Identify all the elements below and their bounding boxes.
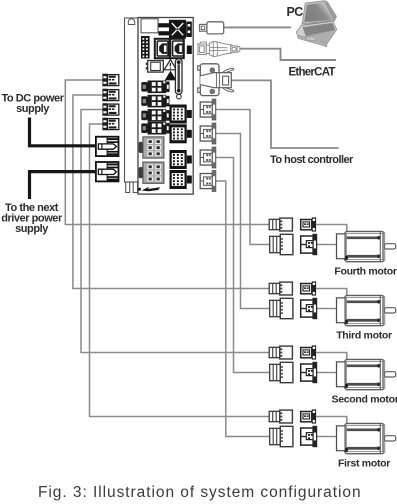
encoder port 1 bbox=[200, 99, 216, 120]
wire: first motor power lead bbox=[316, 417, 347, 424]
driver card-edge slot bbox=[175, 59, 182, 99]
svg-text:Fig. 3: Illustration of system: Fig. 3: Illustration of system configura… bbox=[38, 484, 362, 501]
wire: driver I/O 4 to first motor power plug bbox=[90, 124, 270, 417]
driver motor connector 2 bbox=[170, 124, 187, 143]
first motor encoder lead plug bbox=[301, 426, 317, 446]
next-driver power connector bbox=[96, 162, 119, 181]
encoder port 4 bbox=[200, 171, 216, 192]
warning triangle solid bbox=[165, 71, 177, 81]
wire: encoder port 1 to fourth motor encoder plug bbox=[216, 110, 270, 245]
first motor power cable plug bbox=[269, 410, 292, 423]
third motor encoder cable plug bbox=[270, 298, 293, 318]
driver brake connector 2 bbox=[139, 162, 164, 183]
driver dual RJ45 EtherCAT ports bbox=[155, 39, 184, 59]
driver I/O connector row (hash connectors) bbox=[141, 81, 169, 135]
driver motor connector 4 bbox=[170, 170, 187, 189]
driver bottom brand arrow bbox=[138, 187, 160, 192]
encoder port 2 bbox=[200, 123, 216, 144]
svg-text:First motor: First motor bbox=[338, 458, 390, 470]
host controller plug bbox=[198, 64, 234, 96]
driver right edge tabs bbox=[187, 46, 192, 184]
driver status display bbox=[146, 61, 164, 73]
DC power connector bbox=[96, 137, 119, 156]
svg-text:To host controller: To host controller bbox=[270, 154, 354, 166]
second motor encoder cable plug bbox=[270, 362, 293, 382]
svg-text:PC: PC bbox=[287, 5, 304, 19]
svg-text:supply: supply bbox=[16, 103, 50, 115]
driver motor connector 1 bbox=[170, 105, 187, 124]
warning triangle outline bbox=[164, 60, 176, 70]
EtherCAT cable plug bbox=[198, 42, 240, 57]
second motor bbox=[337, 359, 396, 389]
fourth motor bbox=[337, 231, 396, 261]
svg-text:Third motor: Third motor bbox=[336, 330, 392, 342]
third motor power cable plug bbox=[269, 282, 292, 295]
wire: third motor power lead bbox=[316, 289, 347, 296]
driver pin header bbox=[141, 36, 150, 59]
first motor bbox=[337, 423, 396, 453]
fourth motor power lead plug bbox=[301, 217, 316, 231]
wire: second motor power lead bbox=[316, 353, 347, 360]
svg-text:EtherCAT: EtherCAT bbox=[289, 67, 336, 79]
svg-text:Fourth motor: Fourth motor bbox=[334, 266, 397, 278]
wire: driver I/O 2 to third motor power plug bbox=[73, 95, 269, 289]
second motor encoder lead plug bbox=[301, 362, 317, 382]
wire: third motor encoder lead bbox=[317, 308, 337, 310]
wire: second motor encoder lead bbox=[317, 372, 337, 374]
I/O connector plug 2 bbox=[102, 89, 118, 102]
USB plug bbox=[200, 22, 224, 34]
wire: USB cable to PC bbox=[224, 26, 291, 28]
driver top right terminal bbox=[186, 22, 192, 38]
wire: encoder port 4 to first motor encoder plug bbox=[216, 181, 270, 437]
third motor bbox=[337, 295, 396, 325]
wire: fourth motor encoder lead bbox=[317, 244, 337, 246]
wire: first motor encoder lead bbox=[317, 436, 337, 438]
wire: EtherCAT cable bbox=[240, 49, 336, 60]
third motor power lead plug bbox=[301, 281, 316, 295]
svg-text:Second motor: Second motor bbox=[332, 394, 397, 406]
third motor encoder lead plug bbox=[301, 298, 317, 318]
wire: host controller cable bbox=[231, 80, 339, 148]
first motor encoder cable plug bbox=[270, 426, 293, 446]
I/O connector plug 3 bbox=[102, 103, 118, 116]
wire: encoder port 2 to third motor encoder plug bbox=[216, 134, 270, 309]
driver brake connector 1 bbox=[139, 137, 164, 158]
driver top jumper bars bbox=[159, 23, 171, 35]
wire: DC power supply cable bbox=[30, 118, 97, 146]
wire: driver I/O 1 to fourth motor power plug bbox=[65, 80, 269, 225]
second motor power lead plug bbox=[301, 345, 316, 359]
wire: fourth motor power lead bbox=[316, 225, 347, 232]
driver motor connector 3 bbox=[170, 150, 187, 169]
PC laptop bbox=[296, 1, 337, 47]
wire: next driver power cable bbox=[30, 172, 97, 199]
encoder port 3 bbox=[200, 147, 216, 168]
wire: driver I/O 3 to second motor power plug bbox=[81, 110, 269, 353]
fourth motor encoder lead plug bbox=[301, 234, 317, 254]
fourth motor power cable plug bbox=[269, 218, 292, 231]
driver main body bbox=[138, 18, 193, 195]
second motor power cable plug bbox=[269, 346, 292, 359]
wire: encoder port 3 to second motor encoder plug bbox=[216, 158, 270, 373]
label: To the next driver power supply bbox=[1, 202, 63, 235]
I/O connector plug 1 bbox=[102, 74, 118, 87]
fourth motor encoder cable plug bbox=[270, 234, 293, 254]
label: To DC power supply bbox=[1, 93, 64, 116]
I/O connector plug 4 bbox=[102, 118, 118, 131]
driver top white module bbox=[141, 19, 158, 33]
first motor power lead plug bbox=[301, 409, 316, 423]
svg-text:supply: supply bbox=[15, 223, 49, 235]
driver mounting flange bbox=[125, 18, 139, 193]
driver top X connector block bbox=[169, 20, 186, 39]
